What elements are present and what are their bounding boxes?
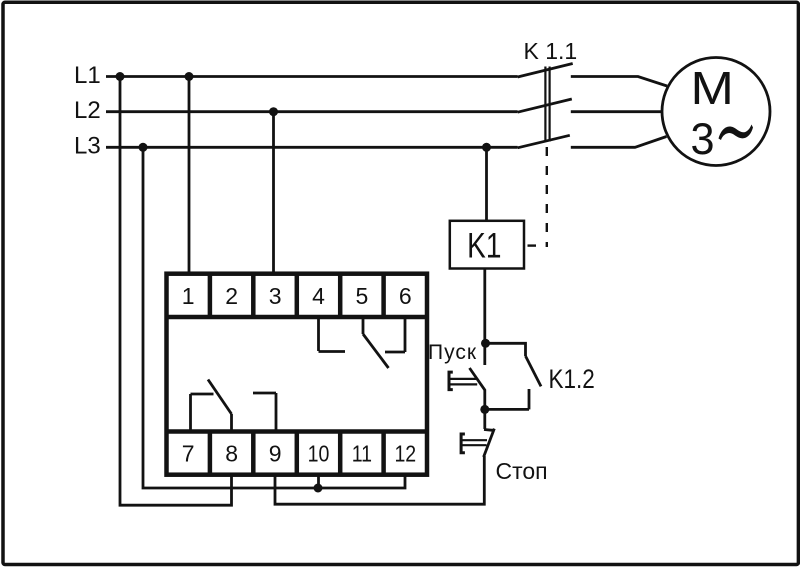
- svg-text:3: 3: [269, 283, 282, 309]
- svg-text:L1: L1: [74, 62, 101, 89]
- svg-text:3: 3: [691, 115, 715, 165]
- svg-text:K1.2: K1.2: [549, 365, 595, 394]
- svg-text:8: 8: [225, 440, 238, 466]
- svg-text:Стоп: Стоп: [496, 458, 548, 484]
- svg-text:L2: L2: [74, 97, 101, 124]
- svg-text:Пуск: Пуск: [428, 341, 477, 364]
- svg-text:10: 10: [308, 441, 330, 467]
- svg-text:2: 2: [225, 283, 238, 309]
- svg-text:7: 7: [182, 440, 195, 466]
- svg-text:M: M: [691, 62, 734, 114]
- svg-text:12: 12: [394, 441, 416, 467]
- svg-text:11: 11: [352, 441, 372, 467]
- svg-text:L3: L3: [74, 133, 101, 160]
- svg-text:1: 1: [182, 283, 195, 309]
- svg-text:6: 6: [399, 283, 412, 309]
- svg-text:4: 4: [312, 283, 325, 309]
- svg-text:5: 5: [356, 283, 369, 309]
- svg-text:K 1.1: K 1.1: [524, 38, 578, 64]
- svg-text:9: 9: [269, 440, 282, 466]
- svg-text:K1: K1: [467, 226, 501, 266]
